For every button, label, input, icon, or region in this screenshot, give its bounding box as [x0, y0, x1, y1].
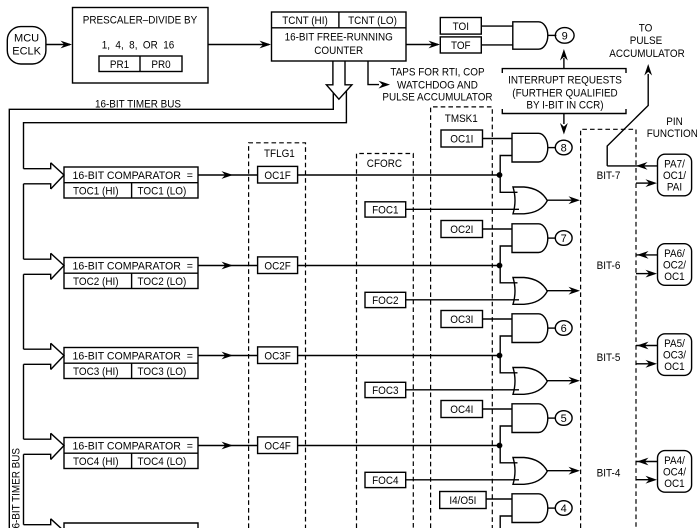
bus input open arrowhead comparator 3 — [51, 343, 64, 369]
svg-text:PRESCALER–DIVIDE BY: PRESCALER–DIVIDE BY — [83, 15, 198, 27]
bus input open arrowhead comparator 2 — [51, 253, 64, 279]
wire pin block 4 output arrow — [636, 458, 658, 466]
svg-text:16-BIT COMPARATOR =: 16-BIT COMPARATOR = — [73, 440, 193, 452]
svg-text:BIT-6: BIT-6 — [597, 260, 621, 272]
wire timer bus chain segment below comparator 1 — [23, 184, 25, 259]
comparator block 2 (16-BIT COMPARATOR TOC2) — [64, 258, 198, 289]
wire MCU ECLK to prescaler — [46, 41, 72, 49]
flag bit OC1F — [258, 166, 298, 183]
svg-text:(FURTHER QUALIFIED: (FURTHER QUALIFIED — [512, 87, 617, 99]
pin block PA6/OC2/OC1 — [658, 244, 692, 286]
svg-text:TOC3 (LO): TOC3 (LO) — [138, 366, 187, 378]
wire FOC2 to OR gate 2 — [406, 299, 519, 301]
svg-text:OC2I: OC2I — [450, 224, 473, 236]
node junction OC3F — [497, 353, 503, 359]
wire junction up to AND gate 3 — [500, 336, 512, 356]
svg-text:TMSK1: TMSK1 — [445, 113, 478, 125]
wire timer bus stub LO to comparator 2 — [24, 274, 51, 279]
wire comparator 1 to OC1F — [198, 171, 258, 179]
flag bit OC3F — [258, 347, 298, 364]
wire pin block 3 input arrow — [636, 360, 657, 368]
CFORC register dashed column — [357, 154, 414, 528]
wire comparator 2 to OC2F — [198, 262, 258, 270]
force bit FOC4 — [365, 472, 406, 487]
wire OC3I to AND gate 3 — [483, 318, 513, 320]
wire bracket down arrow to interrupt 8 — [560, 114, 568, 135]
svg-text:ECLK: ECLK — [12, 45, 41, 57]
pin bit dashed column — [581, 129, 636, 528]
svg-text:MCU: MCU — [14, 33, 39, 45]
wire junction up to AND gate 5 — [500, 516, 512, 528]
wire timer bus stub HI to comparator 1 — [24, 163, 51, 169]
comparator block 3 (16-BIT COMPARATOR TOC3) — [64, 348, 198, 379]
force bit FOC3 — [365, 382, 406, 397]
wire timer bus stub HI to comparator 4 — [24, 433, 51, 439]
wire junction down to OR gate 3 — [500, 356, 517, 373]
svg-text:5: 5 — [561, 413, 567, 425]
mask bit OC3I — [441, 311, 483, 328]
svg-text:OC4I: OC4I — [450, 404, 473, 416]
svg-text:OC3I: OC3I — [450, 314, 473, 326]
svg-text:6: 6 — [561, 323, 567, 335]
svg-text:TOC2 (HI): TOC2 (HI) — [73, 276, 119, 288]
wire OC2I to AND gate 2 — [483, 228, 513, 230]
svg-text:PA4/: PA4/ — [664, 455, 686, 467]
wire timer bus chain segment below comparator 3 — [23, 364, 25, 439]
wire OR gate 3 to pin logic — [547, 377, 580, 385]
wire OR gate 2 to pin logic — [547, 287, 580, 295]
wire comparator 3 to OC3F — [198, 352, 258, 360]
svg-text:BY I-BIT IN CCR): BY I-BIT IN CCR) — [526, 99, 603, 111]
svg-text:OC4/: OC4/ — [663, 466, 687, 478]
pin block PA7/OC1/PAI — [658, 154, 692, 196]
TFLG1 register dashed column — [249, 143, 306, 528]
svg-text:OC3F: OC3F — [264, 351, 291, 363]
svg-text:OC1/: OC1/ — [663, 170, 687, 182]
TOI mask bit — [440, 18, 481, 35]
AND gate 4 — [512, 404, 548, 433]
wire pin block 2 output arrow — [636, 251, 658, 259]
svg-text:PULSE ACCUMULATOR: PULSE ACCUMULATOR — [382, 92, 492, 104]
wire FOC4 to OR gate 4 — [406, 479, 519, 481]
svg-text:OC2/: OC2/ — [663, 260, 687, 272]
svg-text:TOC1 (HI): TOC1 (HI) — [73, 186, 119, 198]
AND gate 3 — [512, 314, 548, 343]
wire AND gate 2 to interrupt 7 — [548, 237, 556, 239]
force bit FOC1 — [365, 202, 406, 217]
svg-text:8: 8 — [561, 143, 567, 155]
node junction OC2F — [497, 263, 503, 269]
svg-text:FUNCTION: FUNCTION — [647, 128, 697, 140]
wire junction down to OR gate 1 — [500, 175, 517, 192]
svg-text:16-BIT TIMER BUS: 16-BIT TIMER BUS — [95, 99, 181, 111]
svg-text:PULSE: PULSE — [630, 35, 663, 47]
svg-text:PA5/: PA5/ — [664, 338, 686, 350]
prescaler block — [73, 8, 209, 84]
svg-text:1, 4, 8, OR 16: 1, 4, 8, OR 16 — [102, 40, 175, 52]
wire bus upper rail — [9, 93, 333, 528]
wire junction up to AND gate 1 — [500, 156, 512, 176]
force bit FOC2 — [365, 292, 406, 307]
svg-text:CFORC: CFORC — [367, 158, 402, 170]
bus input open arrowhead comparator 1 — [51, 163, 64, 189]
16-bit free-running counter block with TCNT registers — [272, 12, 407, 61]
TMSK1 register dashed column — [431, 107, 493, 528]
flag bit OC4F — [258, 437, 298, 454]
wire TOI to AND gate — [481, 25, 513, 27]
svg-text:OC1I: OC1I — [450, 133, 473, 145]
svg-text:4: 4 — [561, 503, 567, 515]
svg-text:FOC3: FOC3 — [372, 385, 398, 397]
OR gate 2 — [513, 278, 547, 305]
svg-text:FOC2: FOC2 — [372, 295, 398, 307]
svg-text:I4/O5I: I4/O5I — [449, 495, 476, 507]
node junction OC1F — [497, 172, 503, 178]
svg-text:WATCHDOG AND: WATCHDOG AND — [397, 79, 478, 91]
wire timer bus stub LO to comparator 1 — [24, 184, 51, 189]
svg-text:TCNT (HI): TCNT (HI) — [282, 15, 328, 27]
svg-text:PR0: PR0 — [151, 59, 170, 71]
PR1 / PR0 register bits — [99, 56, 182, 72]
node TAPS FOR RTI COP label — [382, 66, 492, 103]
MCU ECLK oscillator block — [7, 27, 46, 64]
svg-text:COUNTER: COUNTER — [314, 45, 363, 57]
wire timer bus chain segment below comparator 4 — [23, 454, 25, 524]
svg-text:TFLG1: TFLG1 — [264, 148, 295, 160]
wire bus lower rail — [24, 91, 347, 169]
svg-text:TOC4 (HI): TOC4 (HI) — [73, 456, 119, 468]
svg-text:TAPS FOR RTI, COP: TAPS FOR RTI, COP — [390, 66, 484, 78]
wire timer bus stub HI to comparator 2 — [24, 253, 51, 259]
svg-text:BIT-5: BIT-5 — [597, 352, 621, 364]
wire OR gate 1 to pin logic — [547, 196, 580, 204]
AND gate 5 — [512, 494, 548, 523]
interrupt number 4 — [555, 501, 572, 516]
svg-text:TOC1 (LO): TOC1 (LO) — [138, 186, 187, 198]
svg-text:PA7/: PA7/ — [664, 159, 686, 171]
wire junction down to OR gate 2 — [500, 266, 517, 283]
svg-text:PIN: PIN — [666, 116, 683, 128]
wire bracket up arrow to interrupt 9 — [560, 49, 568, 69]
svg-text:PR1: PR1 — [110, 59, 129, 71]
wire AND gate 4 to interrupt 5 — [548, 417, 556, 419]
svg-text:OC1: OC1 — [664, 361, 684, 373]
node TO PULSE ACCUMULATOR label — [609, 22, 685, 60]
16-bit timer bus hollow arrow from counter — [326, 61, 352, 99]
wire timer bus stub LO to comparator 4 — [24, 454, 51, 459]
interrupt number 5 — [555, 411, 572, 426]
wire TOF to AND gate — [481, 44, 513, 46]
svg-text:INTERRUPT REQUESTS: INTERRUPT REQUESTS — [508, 74, 622, 86]
interrupt number 6 — [555, 321, 572, 336]
wire OC2F to junction — [298, 265, 500, 267]
svg-text:FOC4: FOC4 — [372, 475, 398, 487]
wire timer bus stub HI to comparator 3 — [24, 343, 51, 349]
wire junction up to AND gate 4 — [500, 426, 512, 446]
svg-text:OC4F: OC4F — [264, 441, 291, 453]
svg-text:ACCUMULATOR: ACCUMULATOR — [609, 48, 685, 60]
comparator block 1 (16-BIT COMPARATOR TOC1) — [64, 167, 198, 198]
wire prescaler to counter — [208, 41, 271, 49]
svg-text:TO: TO — [639, 22, 653, 34]
wire AND gate 3 to interrupt 6 — [548, 327, 556, 329]
wire OC4I to AND gate 4 — [483, 408, 513, 410]
interrupt requests qualifier bracket — [502, 69, 626, 114]
wire counter to RTI/COP taps — [368, 61, 390, 89]
AND gate 2 — [512, 224, 548, 253]
wire timer bus stub LO to comparator 3 — [24, 364, 51, 369]
wire pin PA7 output to bit-7 and pulse accumulator — [607, 162, 657, 170]
mask bit OC4I — [441, 401, 483, 418]
OR gate 4 — [513, 458, 547, 485]
wire timer bus stub HI to comparator 5 — [24, 519, 51, 525]
svg-text:TOI: TOI — [453, 21, 469, 33]
wire FOC1 to OR gate 1 — [406, 208, 519, 210]
wire AND gate to interrupt 9 — [548, 34, 556, 36]
wire pin block 1 input arrow — [636, 179, 657, 187]
wire comparator 4 to OC4F — [198, 442, 258, 450]
svg-text:TOF: TOF — [451, 40, 471, 52]
AND gate U9 (timer overflow interrupt) — [513, 22, 548, 49]
wire junction down to OR gate 4 — [500, 446, 517, 463]
pin block PA4/OC4/OC1 — [658, 451, 692, 493]
svg-text:16-BIT COMPARATOR =: 16-BIT COMPARATOR = — [73, 170, 193, 182]
wire pin block 2 input arrow — [636, 270, 657, 278]
OR gate 3 — [513, 368, 547, 395]
wire OC3F to junction — [298, 355, 500, 357]
wire pin block 3 output arrow — [636, 342, 658, 350]
wire OC1F to junction — [298, 174, 500, 176]
comparator block 4 (16-BIT COMPARATOR TOC4) — [64, 438, 198, 469]
svg-text:BIT-7: BIT-7 — [597, 170, 621, 182]
wire AND gate 1 to interrupt 8 — [548, 147, 556, 149]
TOF flag bit — [440, 37, 481, 53]
interrupt number 8 — [555, 140, 572, 155]
wire counter to TOF flag — [406, 41, 440, 49]
svg-text:7: 7 — [561, 233, 567, 245]
svg-text:BIT-4: BIT-4 — [597, 467, 621, 479]
svg-text:9: 9 — [562, 31, 568, 43]
svg-text:16-BIT COMPARATOR =: 16-BIT COMPARATOR = — [73, 350, 193, 362]
svg-text:PAI: PAI — [667, 181, 682, 193]
wire junction up to AND gate 2 — [500, 246, 512, 266]
OR gate 1 — [513, 187, 547, 214]
svg-text:TCNT (LO): TCNT (LO) — [348, 15, 397, 27]
node PIN FUNCTION label — [647, 116, 697, 140]
svg-text:TOC2 (LO): TOC2 (LO) — [138, 276, 187, 288]
wire AND gate 5 to interrupt 4 — [548, 507, 556, 509]
svg-text:FOC1: FOC1 — [372, 204, 398, 216]
wire PA7 pin to pulse accumulator — [607, 64, 652, 166]
bus input open arrowhead comparator 5 — [51, 519, 64, 528]
wire I4/O5I to AND gate 5 — [486, 498, 512, 500]
bus input open arrowhead comparator 4 — [51, 433, 64, 459]
wire OC1I to AND gate 1 — [483, 138, 513, 140]
svg-text:OC1: OC1 — [664, 478, 684, 490]
svg-text:OC3/: OC3/ — [663, 350, 687, 362]
wire timer bus chain segment below comparator 2 — [23, 274, 25, 349]
svg-text:OC2F: OC2F — [264, 261, 291, 273]
flag bit OC2F — [258, 257, 298, 274]
svg-text:OC1: OC1 — [664, 271, 684, 283]
svg-text:PA6/: PA6/ — [664, 248, 686, 260]
comparator block 5 (partial at bottom edge) — [64, 523, 198, 528]
svg-text:16-BIT TIMER BUS: 16-BIT TIMER BUS — [11, 448, 23, 528]
svg-text:TOC3 (HI): TOC3 (HI) — [73, 366, 119, 378]
svg-text:16-BIT FREE-RUNNING: 16-BIT FREE-RUNNING — [285, 32, 393, 44]
wire pin block 4 input arrow — [636, 476, 657, 484]
node junction OC4F — [497, 443, 503, 449]
svg-text:OC1F: OC1F — [264, 170, 291, 182]
interrupt number 9 — [555, 28, 574, 44]
pin block PA5/OC3/OC1 — [658, 334, 692, 376]
wire OR gate 4 to pin logic — [547, 467, 580, 475]
mask bit OC2I — [441, 221, 483, 238]
wire OC4F to junction — [298, 445, 500, 447]
svg-text:16-BIT COMPARATOR =: 16-BIT COMPARATOR = — [73, 260, 193, 272]
mask bit I4/O5I — [440, 492, 486, 509]
mask bit OC1I — [441, 130, 483, 147]
interrupt number 7 — [555, 231, 572, 246]
svg-text:TOC4 (LO): TOC4 (LO) — [138, 456, 187, 468]
wire FOC3 to OR gate 3 — [406, 389, 519, 391]
AND gate 1 — [512, 133, 548, 162]
